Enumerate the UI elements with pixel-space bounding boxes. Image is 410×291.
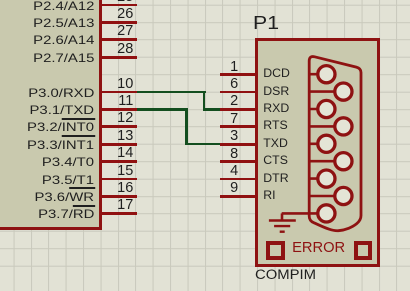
pin stub 3 (COMPIM): [220, 143, 259, 146]
pin name label RTS (COMPIM): [263, 119, 287, 132]
pin number 26 (chip): [117, 7, 133, 22]
connector contact 3 link: [309, 143, 326, 146]
pin label P3.4/T0: [42, 156, 94, 168]
pin stub 13 (chip): [99, 143, 137, 146]
pin stub 1 (COMPIM): [220, 73, 259, 76]
connector contact 7 link: [309, 125, 343, 128]
connector contact 1 link: [309, 73, 326, 76]
pin number 12 (chip): [117, 111, 133, 126]
pin stub 2 (COMPIM): [220, 108, 259, 111]
wire P3.1/TXD to TXD: horizontal segment on pin-11 row: [137, 108, 189, 111]
pin number 14 (chip): [117, 146, 133, 161]
pin number 17 (chip): [117, 198, 133, 213]
ERROR indicator left square: [266, 241, 285, 260]
pin number 1 (COMPIM): [230, 60, 238, 75]
connector contact circle 1: [318, 66, 335, 83]
microcontroller body (left chip, partially off-screen): [0, 0, 102, 230]
pin label P2.7/A15: [33, 52, 94, 64]
pin number 11 (chip): [118, 94, 133, 109]
pin stub 10 (chip): [99, 91, 137, 94]
pin number 6 (COMPIM): [230, 77, 238, 92]
connector contact 2 link: [309, 108, 326, 111]
wire P3.0/RXD to RXD: vertical segment: [203, 91, 206, 111]
wire P3.1/TXD to TXD: horizontal segment into pin 3: [185, 143, 220, 146]
pin number 3 (COMPIM): [230, 129, 238, 144]
pin stub 16 (chip): [99, 195, 137, 198]
component type label COMPIM: [255, 268, 316, 282]
pin number 4 (COMPIM): [230, 164, 238, 179]
pin name label TXD (COMPIM): [263, 137, 288, 150]
pin name label CTS (COMPIM): [263, 154, 288, 167]
connector P1 body box (COMPIM): [255, 38, 380, 267]
pin stub 4 (COMPIM): [220, 178, 259, 181]
connector contact circle 8: [335, 153, 352, 170]
wire P3.1/TXD to TXD: vertical segment: [185, 108, 188, 146]
ERROR indicator right square: [354, 241, 372, 260]
connector contact circle 3: [318, 135, 335, 152]
pin number 8 (COMPIM): [230, 147, 238, 162]
connector contact 4 link: [309, 177, 326, 180]
pin name label RI (COMPIM): [263, 189, 275, 202]
pin label P3.1/TXD: [30, 104, 95, 116]
connector contact circle 5: [318, 205, 335, 222]
pin label P3.0/RXD: [28, 87, 94, 99]
connector contact circle 7: [335, 118, 352, 135]
pin number 16 (chip): [117, 181, 133, 196]
connector contact 5 link: [309, 212, 326, 215]
wire P3.0/RXD to RXD: horizontal segment into pin 2: [203, 108, 220, 111]
pin stub 8 (COMPIM): [220, 160, 259, 163]
pin stub 9 (COMPIM): [220, 195, 259, 198]
wire P3.0/RXD to RXD: horizontal segment on pin-10 row: [137, 91, 206, 94]
pin label P3.3/INT1: [27, 139, 94, 151]
connector contact 8 link: [309, 160, 343, 163]
pin label P2.6/A14: [33, 34, 94, 46]
pin stub 25 (chip): [99, 4, 137, 7]
connector contact circle 6: [335, 83, 352, 100]
pin number 27 (chip): [117, 24, 133, 39]
ground symbol (pin 5 shield ground): [269, 213, 309, 231]
pin stub 7 (COMPIM): [220, 125, 259, 128]
pin stub 12 (chip): [99, 125, 137, 128]
connector contact circle 4: [318, 170, 335, 187]
pin label P3.2/INT0: [27, 121, 94, 133]
pin label P2.4/A12: [33, 0, 94, 12]
pin number 28 (chip): [117, 42, 133, 57]
pin stub 17 (chip): [99, 212, 137, 215]
pin number 25 (chip): [117, 0, 133, 4]
pin stub 6 (COMPIM): [220, 91, 259, 94]
pin number 10 (chip): [117, 77, 133, 92]
pin number 13 (chip): [117, 129, 133, 144]
pin number 7 (COMPIM): [230, 112, 238, 127]
ERROR label: [292, 241, 345, 256]
pin label P2.5/A13: [33, 17, 94, 29]
pin label P3.5/T1: [42, 174, 94, 186]
reference designator P1: [253, 14, 279, 33]
pin label P3.6/WR: [35, 191, 95, 203]
pin number 9 (COMPIM): [230, 181, 238, 196]
connector contact circle 9: [335, 187, 352, 204]
pin stub 26 (chip): [99, 21, 137, 24]
pin stub 14 (chip): [99, 160, 137, 163]
pin label P3.7/RD: [38, 208, 94, 220]
pin number 2 (COMPIM): [230, 94, 238, 109]
pin name label DSR (COMPIM): [263, 85, 289, 98]
pin stub 15 (chip): [99, 178, 137, 181]
pin name label DCD (COMPIM): [263, 67, 290, 80]
connector contact 9 link: [309, 195, 343, 198]
pin stub 11 (chip): [99, 108, 137, 111]
connector contact 6 link: [309, 90, 343, 93]
pin name label DTR (COMPIM): [263, 172, 288, 185]
pin name label RXD (COMPIM): [263, 102, 289, 115]
pin stub 28 (chip): [99, 56, 137, 59]
pin number 15 (chip): [117, 164, 133, 179]
pin stub 27 (chip): [99, 38, 137, 41]
DB9 D-shaped connector outline: [309, 57, 361, 231]
connector contact circle 2: [318, 100, 335, 117]
